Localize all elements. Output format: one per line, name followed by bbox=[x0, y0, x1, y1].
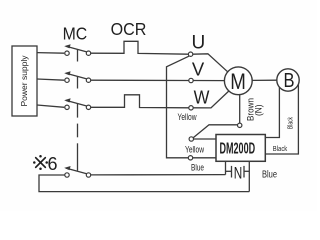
svg-text:M: M bbox=[230, 69, 246, 94]
svg-text:Power supply: Power supply bbox=[19, 55, 29, 107]
svg-text:DM200D: DM200D bbox=[220, 141, 256, 158]
svg-text:Blue: Blue bbox=[191, 163, 204, 173]
svg-text:U: U bbox=[192, 33, 206, 54]
svg-text:6: 6 bbox=[47, 154, 57, 174]
svg-text:B: B bbox=[284, 70, 295, 92]
svg-text:Black: Black bbox=[288, 117, 295, 129]
svg-text:N: N bbox=[234, 165, 243, 183]
svg-text:Black: Black bbox=[273, 146, 288, 153]
svg-text:V: V bbox=[192, 59, 205, 80]
svg-text:MC: MC bbox=[63, 24, 88, 44]
svg-text:(N): (N) bbox=[254, 105, 264, 117]
svg-text:Yellow: Yellow bbox=[178, 112, 197, 122]
svg-text:Blue: Blue bbox=[262, 170, 277, 181]
svg-text:W: W bbox=[194, 86, 210, 107]
svg-text:Yellow: Yellow bbox=[185, 144, 204, 154]
svg-text:OCR: OCR bbox=[111, 19, 147, 39]
